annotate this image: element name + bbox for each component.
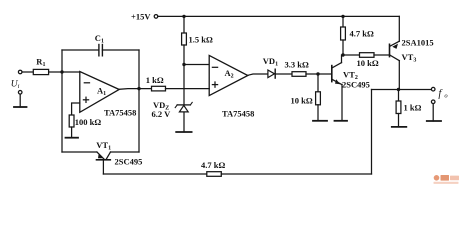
- watermark logo: [434, 175, 460, 184]
- svg-text:100 kΩ: 100 kΩ: [75, 117, 102, 127]
- wire terminal to ground: [19, 94, 21, 107]
- svg-text:10 kΩ: 10 kΩ: [291, 95, 313, 105]
- wire VT1 collector to A1 output node: [111, 89, 140, 152]
- op-amp A1: [80, 72, 119, 113]
- resistor 10 kΩ (horizontal): [343, 54, 360, 56]
- wire output node row: [372, 89, 432, 91]
- svg-text:TA75458: TA75458: [104, 108, 136, 118]
- wire VT3 collector drop: [398, 61, 400, 90]
- resistor 3.3 kΩ: [292, 72, 306, 77]
- output terminal fo: [431, 87, 435, 91]
- ground (1k output): [392, 126, 407, 128]
- ground (output terminal): [427, 120, 441, 122]
- transistor VT2 2SC495: [332, 63, 342, 85]
- resistor 1 kΩ (interstage): [152, 86, 166, 91]
- node rail-4.7k junction: [341, 15, 344, 18]
- svg-text:2SC495: 2SC495: [342, 80, 370, 90]
- ground (VT2 emitter): [335, 120, 348, 122]
- resistor 4.7 kΩ (bottom): [207, 172, 222, 177]
- svg-text:1.5 kΩ: 1.5 kΩ: [189, 35, 213, 45]
- resistor 1.5 kΩ: [183, 16, 185, 33]
- svg-text:1 kΩ: 1 kΩ: [146, 75, 164, 85]
- wire A1 noninverting input: [72, 103, 80, 115]
- resistor 100 kΩ: [69, 115, 74, 127]
- wire zener branch: [183, 65, 185, 105]
- svg-text:1 kΩ: 1 kΩ: [404, 103, 422, 113]
- svg-text:TA75458: TA75458: [222, 109, 254, 119]
- node VT2 base junction: [316, 72, 319, 75]
- wire VT2 emitter to ground: [341, 85, 343, 121]
- node A1 output junction: [137, 87, 140, 90]
- svg-text:4.7 kΩ: 4.7 kΩ: [350, 29, 374, 39]
- wire VT1 base drop: [102, 160, 104, 174]
- node VT2 collector junction: [341, 53, 344, 56]
- svg-text:3.3 kΩ: 3.3 kΩ: [285, 60, 309, 70]
- capacitor C1 feedback loop: [61, 50, 63, 72]
- resistor R1: [22, 71, 33, 73]
- svg-text:6.2 V: 6.2 V: [152, 109, 172, 119]
- wire VT1 emitter to A1 inverting node: [62, 72, 97, 152]
- svg-text:4.7 kΩ: 4.7 kΩ: [201, 160, 225, 170]
- output terminal lower: [431, 100, 435, 104]
- svg-text:+15V: +15V: [131, 12, 151, 22]
- node A1 inverting input: [60, 70, 63, 73]
- ground (100k): [66, 137, 79, 139]
- wire to A2 - input: [184, 64, 209, 66]
- diode VD1: [268, 70, 275, 78]
- resistor 1 kΩ (output): [398, 90, 400, 102]
- wire bottom feedback: [103, 173, 206, 175]
- op-amp A2: [209, 55, 248, 95]
- ground (10k): [313, 120, 327, 122]
- node rail-1.5k junction: [182, 15, 185, 18]
- wire A2 output: [248, 74, 268, 75]
- svg-text:10 kΩ: 10 kΩ: [357, 58, 379, 68]
- input terminal Ui bottom: [18, 91, 22, 95]
- +15V supply terminal: [154, 15, 158, 19]
- transistor VT3 2SA1015: [390, 41, 400, 60]
- wire VT3 emitter to rail: [398, 16, 400, 41]
- input terminal Ui top: [18, 70, 22, 74]
- svg-text:2SA1015: 2SA1015: [402, 37, 434, 47]
- ground (zener): [176, 131, 191, 133]
- node A2 inverting input junction: [182, 63, 185, 66]
- ground (input): [14, 106, 27, 108]
- wire VT2 collector riser: [341, 55, 343, 63]
- zener diode VDZ 6.2V: [179, 105, 188, 112]
- wire feedback riser: [371, 90, 373, 175]
- transistor VT1 2SC495: [97, 152, 111, 160]
- resistor 10 kΩ (vertical): [317, 74, 319, 92]
- wire power rail: [158, 15, 399, 17]
- wire A1 output: [119, 88, 151, 91]
- resistor 4.7 kΩ (top): [342, 16, 344, 27]
- svg-text:2SC495: 2SC495: [115, 157, 143, 167]
- node output junction: [397, 88, 400, 91]
